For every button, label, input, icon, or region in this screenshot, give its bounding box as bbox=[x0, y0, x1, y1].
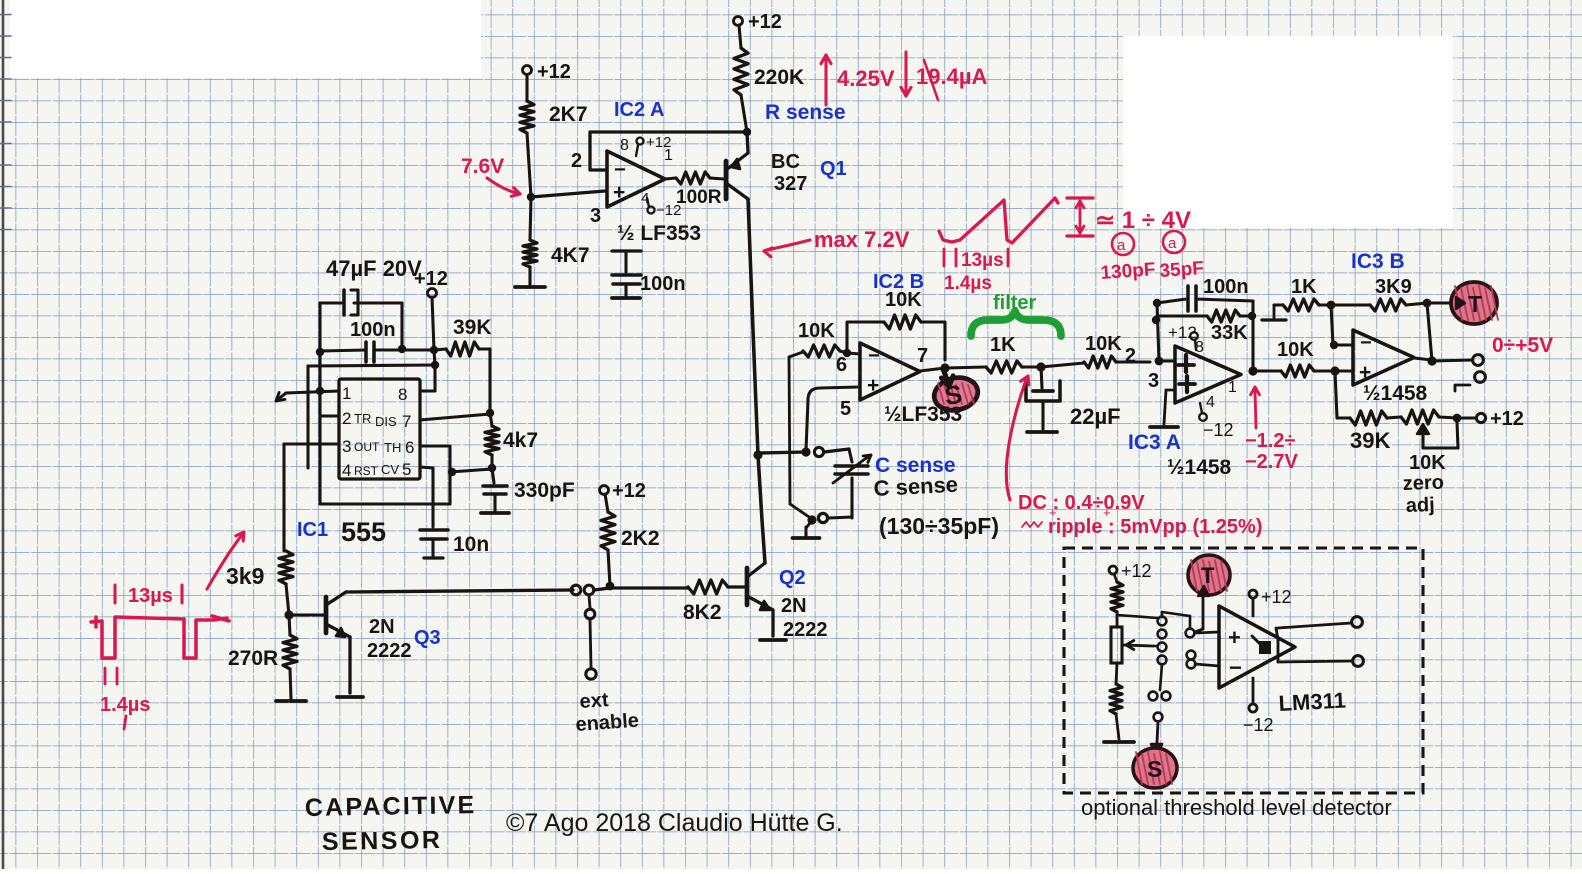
svg-text:1K: 1K bbox=[990, 334, 1016, 356]
svg-text:ripple : 5mVpp (1.25%): ripple : 5mVpp (1.25%) bbox=[1048, 516, 1263, 538]
svg-text:3k9: 3k9 bbox=[226, 563, 264, 589]
svg-text:8: 8 bbox=[620, 137, 629, 154]
svg-text:8K2: 8K2 bbox=[683, 601, 722, 624]
svg-text:10K: 10K bbox=[1277, 339, 1314, 361]
svg-text:4: 4 bbox=[342, 461, 351, 480]
svg-text:Q1: Q1 bbox=[820, 158, 847, 180]
svg-text:130pF: 130pF bbox=[1100, 259, 1156, 284]
svg-text:555: 555 bbox=[341, 517, 386, 547]
svg-text:½1458: ½1458 bbox=[1167, 456, 1232, 479]
svg-text:−: − bbox=[1360, 332, 1372, 354]
svg-text:2K7: 2K7 bbox=[549, 103, 588, 126]
svg-text:327: 327 bbox=[774, 173, 807, 195]
svg-text:−12: −12 bbox=[1203, 420, 1234, 440]
svg-text:−: − bbox=[1229, 655, 1242, 680]
svg-text:3K9: 3K9 bbox=[1375, 276, 1412, 298]
svg-text:CAPACITIVE: CAPACITIVE bbox=[305, 791, 477, 822]
svg-text:2222: 2222 bbox=[783, 619, 828, 641]
svg-text:½ LF353: ½ LF353 bbox=[617, 222, 701, 245]
svg-text:22µF: 22µF bbox=[1070, 404, 1121, 429]
svg-text:4: 4 bbox=[1206, 394, 1215, 411]
svg-text:4.25V: 4.25V bbox=[837, 66, 895, 91]
svg-text:0÷+5V: 0÷+5V bbox=[1492, 334, 1553, 357]
svg-text:2N: 2N bbox=[781, 595, 807, 617]
svg-text:330pF: 330pF bbox=[514, 479, 575, 502]
svg-text:zero: zero bbox=[1402, 472, 1444, 495]
svg-text:T: T bbox=[1201, 563, 1215, 588]
svg-text:+12: +12 bbox=[1121, 561, 1152, 581]
svg-text:270R: 270R bbox=[228, 647, 278, 670]
svg-text:1: 1 bbox=[1228, 379, 1237, 396]
svg-text:2N: 2N bbox=[369, 616, 395, 638]
svg-text:−: − bbox=[868, 345, 880, 367]
svg-text:TR: TR bbox=[354, 411, 371, 426]
svg-text:47µF 20V: 47µF 20V bbox=[326, 256, 422, 281]
svg-text:33K: 33K bbox=[1211, 322, 1248, 344]
svg-text:10K: 10K bbox=[1085, 333, 1122, 355]
svg-text:13µs: 13µs bbox=[128, 585, 173, 607]
svg-text:10K: 10K bbox=[798, 320, 835, 342]
svg-text:Q2: Q2 bbox=[779, 567, 806, 589]
svg-text:4K7: 4K7 bbox=[551, 244, 590, 267]
svg-text:6: 6 bbox=[836, 354, 847, 376]
svg-text:+12: +12 bbox=[748, 11, 782, 33]
svg-text:4k7: 4k7 bbox=[503, 429, 538, 452]
svg-text:max 7.2V: max 7.2V bbox=[814, 227, 910, 252]
svg-text:7: 7 bbox=[402, 412, 411, 431]
svg-text:optional threshold level detec: optional threshold level detector bbox=[1081, 795, 1392, 820]
svg-text:R sense: R sense bbox=[765, 101, 846, 124]
svg-text:35pF: 35pF bbox=[1159, 258, 1205, 282]
svg-text:−2.7V: −2.7V bbox=[1245, 451, 1298, 473]
svg-text:39K: 39K bbox=[453, 316, 492, 339]
svg-text:IC3 B: IC3 B bbox=[1351, 250, 1405, 273]
svg-text:RST: RST bbox=[354, 464, 379, 478]
svg-text:LM311: LM311 bbox=[1278, 688, 1346, 716]
svg-text:+12: +12 bbox=[1168, 323, 1197, 342]
svg-text:≃ 1 ÷ 4V: ≃ 1 ÷ 4V bbox=[1095, 207, 1191, 234]
svg-text:IC1: IC1 bbox=[297, 519, 328, 541]
svg-text:Q3: Q3 bbox=[414, 627, 441, 649]
svg-text:IC3 A: IC3 A bbox=[1128, 431, 1181, 454]
svg-text:100n: 100n bbox=[350, 319, 396, 341]
svg-text:+12: +12 bbox=[1490, 408, 1524, 430]
svg-text:7: 7 bbox=[917, 345, 928, 367]
svg-text:+12: +12 bbox=[414, 268, 448, 290]
svg-text:+12: +12 bbox=[537, 61, 571, 83]
svg-text:10n: 10n bbox=[453, 533, 489, 556]
svg-text:adj: adj bbox=[1405, 494, 1435, 517]
svg-text:BC: BC bbox=[771, 151, 800, 173]
svg-text:OUT: OUT bbox=[354, 440, 380, 454]
svg-text:TH: TH bbox=[384, 440, 401, 455]
svg-text:SENSOR: SENSOR bbox=[322, 826, 443, 856]
svg-text:+: + bbox=[1359, 361, 1371, 384]
svg-text:+: + bbox=[1228, 625, 1241, 650]
svg-text:a: a bbox=[1168, 235, 1177, 252]
svg-text:½1458: ½1458 bbox=[1363, 382, 1428, 405]
svg-text:100R: 100R bbox=[676, 187, 722, 208]
svg-text:8: 8 bbox=[398, 385, 407, 404]
svg-text:C sense: C sense bbox=[873, 472, 959, 501]
svg-text:IC2 B: IC2 B bbox=[873, 271, 924, 293]
svg-text:2: 2 bbox=[1125, 345, 1136, 367]
svg-text:1.4µs: 1.4µs bbox=[944, 273, 992, 294]
svg-text:CV: CV bbox=[381, 462, 399, 477]
svg-text:2K2: 2K2 bbox=[621, 527, 660, 550]
svg-text:220K: 220K bbox=[754, 66, 804, 89]
svg-text:S: S bbox=[1147, 756, 1162, 782]
svg-text:−12: −12 bbox=[1243, 715, 1274, 735]
svg-text:−1.2÷: −1.2÷ bbox=[1245, 430, 1295, 452]
svg-text:5: 5 bbox=[840, 398, 851, 420]
svg-text:7.6V: 7.6V bbox=[461, 155, 504, 178]
svg-text:IC2 A: IC2 A bbox=[614, 99, 664, 121]
svg-text:100n: 100n bbox=[640, 273, 686, 295]
svg-text:6: 6 bbox=[405, 438, 414, 457]
svg-text:1.4µs: 1.4µs bbox=[100, 694, 150, 716]
svg-text:2: 2 bbox=[342, 409, 351, 428]
svg-text:3: 3 bbox=[590, 205, 601, 227]
svg-text:DIS: DIS bbox=[375, 414, 397, 429]
svg-text:½LF353: ½LF353 bbox=[884, 403, 962, 426]
svg-text:2: 2 bbox=[571, 150, 582, 172]
svg-text:(130÷35pF): (130÷35pF) bbox=[879, 513, 999, 539]
svg-text:5: 5 bbox=[402, 460, 411, 479]
svg-text:enable: enable bbox=[575, 710, 640, 736]
svg-text:©7 Ago 2018 Claudio Hütte G.: ©7 Ago 2018 Claudio Hütte G. bbox=[506, 809, 843, 837]
svg-text:1: 1 bbox=[664, 147, 673, 164]
svg-text:39K: 39K bbox=[1350, 428, 1390, 453]
svg-text:100n: 100n bbox=[1203, 276, 1249, 298]
svg-text:T: T bbox=[1468, 291, 1482, 317]
svg-text:1: 1 bbox=[342, 384, 351, 403]
svg-text:1K: 1K bbox=[1291, 276, 1317, 298]
svg-text:+12: +12 bbox=[1261, 587, 1292, 607]
svg-text:a: a bbox=[1117, 237, 1126, 254]
svg-text:ext: ext bbox=[579, 689, 610, 713]
svg-text:3: 3 bbox=[1148, 370, 1159, 392]
svg-text:DC : 0.4÷0.9V: DC : 0.4÷0.9V bbox=[1018, 492, 1145, 514]
svg-text:−: − bbox=[614, 159, 626, 181]
svg-text:3: 3 bbox=[342, 437, 351, 456]
svg-text:2222: 2222 bbox=[367, 640, 412, 662]
svg-text:+: + bbox=[867, 374, 879, 397]
svg-text:+: + bbox=[613, 181, 625, 204]
svg-text:+12: +12 bbox=[612, 480, 646, 502]
svg-text:13µs: 13µs bbox=[961, 250, 1004, 271]
